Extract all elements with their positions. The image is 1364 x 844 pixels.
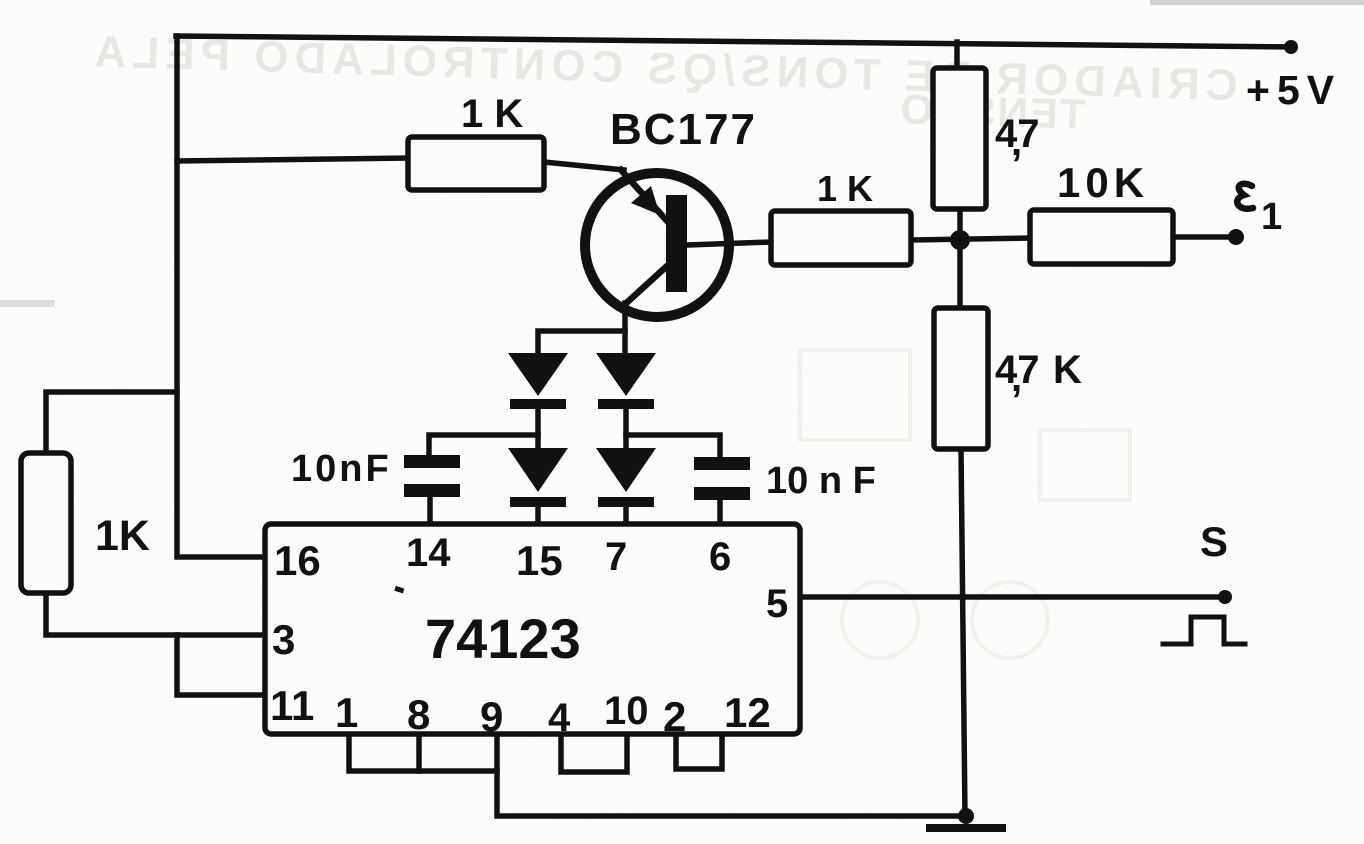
- svg-text:74123: 74123: [425, 607, 581, 670]
- svg-text:1: 1: [1261, 196, 1282, 238]
- svg-text:1 K: 1 K: [461, 92, 523, 136]
- svg-text:10: 10: [604, 689, 649, 733]
- svg-text:2: 2: [663, 693, 686, 740]
- svg-text:,: ,: [1011, 356, 1022, 400]
- svg-text:3: 3: [272, 616, 295, 663]
- svg-text:1K: 1K: [95, 512, 150, 560]
- svg-text:10nF: 10nF: [291, 448, 392, 490]
- svg-text:12: 12: [724, 689, 771, 736]
- svg-text:9: 9: [480, 693, 503, 740]
- svg-text:,: ,: [1011, 120, 1022, 164]
- svg-text:16: 16: [274, 537, 321, 584]
- svg-text:1 K: 1 K: [817, 168, 873, 209]
- svg-text:+5V: +5V: [1246, 67, 1341, 113]
- svg-text:1: 1: [335, 689, 358, 736]
- svg-text:6: 6: [709, 535, 731, 579]
- svg-text:10 n F: 10 n F: [766, 460, 876, 502]
- svg-text:TENSÃO: TENSÃO: [898, 85, 1086, 138]
- svg-text:10K: 10K: [1057, 159, 1149, 206]
- svg-text:K: K: [1053, 348, 1082, 392]
- svg-text:S: S: [1200, 518, 1228, 565]
- svg-text:BC177: BC177: [610, 105, 757, 154]
- svg-text:15: 15: [516, 537, 563, 584]
- svg-text:7: 7: [605, 535, 627, 579]
- svg-text:4: 4: [548, 696, 571, 740]
- svg-text:14: 14: [406, 531, 451, 575]
- svg-text:8: 8: [407, 691, 430, 738]
- svg-text:5: 5: [766, 582, 788, 626]
- svg-text:11: 11: [270, 682, 314, 729]
